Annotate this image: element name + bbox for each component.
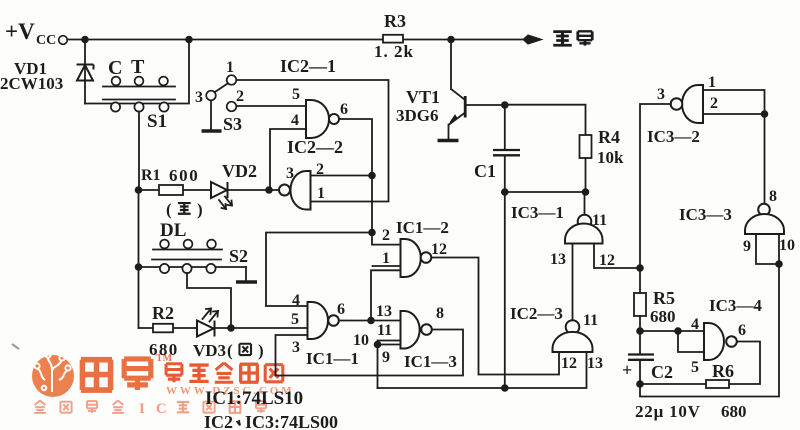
svg-text:IC3:74LS00: IC3:74LS00 bbox=[245, 412, 338, 430]
svg-text:VD3: VD3 bbox=[193, 341, 226, 360]
svg-text:IC1—1: IC1—1 bbox=[306, 349, 359, 368]
wire VT1 base to R4 bbox=[466, 105, 586, 135]
svg-text:3: 3 bbox=[195, 89, 203, 106]
svg-text:10: 10 bbox=[353, 332, 369, 349]
svg-text:11: 11 bbox=[377, 322, 392, 339]
svg-text:IC1—3: IC1—3 bbox=[404, 352, 457, 371]
svg-text:): ) bbox=[197, 200, 203, 219]
ground S2 bbox=[245, 267, 247, 281]
wire IC1-2 out12 to IC2-3 pin12 bbox=[431, 258, 559, 375]
wire S2 common to VD3 line bbox=[187, 273, 231, 328]
ground under S3 bbox=[202, 129, 222, 132]
wire VD3 to IC1-1 pin5 bbox=[216, 327, 308, 329]
wire IC2-2 pin2 bbox=[311, 175, 373, 177]
svg-text:R1: R1 bbox=[141, 167, 161, 184]
wire IC2-1 pin4 feed bbox=[270, 129, 306, 190]
svg-text:IC3—3: IC3—3 bbox=[679, 205, 732, 224]
capacitor C1 bbox=[504, 105, 506, 192]
svg-text:12: 12 bbox=[599, 252, 615, 269]
op-amp gate IC2-1 NAND bbox=[306, 100, 329, 138]
svg-text:VT1: VT1 bbox=[406, 87, 440, 107]
svg-text:R6: R6 bbox=[712, 361, 734, 381]
resistor R4 bbox=[580, 135, 592, 158]
svg-text:C2: C2 bbox=[651, 362, 673, 382]
svg-text:680: 680 bbox=[650, 307, 676, 326]
node junction Vcc-VT1 collector bbox=[447, 36, 455, 44]
node junction R4 bottom bbox=[582, 188, 590, 196]
svg-text:9: 9 bbox=[382, 349, 390, 366]
node junction S2-VD3 bbox=[227, 324, 235, 332]
svg-text:11: 11 bbox=[583, 312, 598, 329]
node junction S2 left bbox=[135, 263, 143, 271]
wire S1 common down to R1/S2/R2 bbox=[138, 112, 141, 329]
node junction base-net bbox=[501, 384, 509, 392]
diode VD1 zener 2CW103 bbox=[84, 40, 86, 104]
svg-text:IC3—2: IC3—2 bbox=[647, 127, 700, 146]
svg-text:R4: R4 bbox=[598, 127, 620, 147]
label (红) bbox=[166, 200, 203, 219]
svg-text:1. 2k: 1. 2k bbox=[374, 42, 414, 61]
label VD3 (绿) bbox=[193, 341, 264, 360]
wire IC3-2 pins1,2 tie to IC3-3 out8 bbox=[703, 90, 765, 204]
svg-text:3: 3 bbox=[292, 339, 300, 356]
svg-text:IC2: IC2 bbox=[204, 412, 233, 430]
svg-text:680: 680 bbox=[721, 402, 747, 421]
wire IC1-1 out6 bbox=[339, 320, 401, 322]
wire C1bottom-R4bottom bbox=[505, 191, 586, 193]
wire IC3-3 pins 9,10 bbox=[756, 234, 779, 264]
node junction out6-IC2-2 pin2 bbox=[368, 172, 376, 180]
node junction pin4/5 tie bbox=[674, 327, 682, 335]
svg-text:IC2—3: IC2—3 bbox=[510, 304, 563, 323]
wire IC3-2 out3 down left rail bbox=[640, 104, 671, 293]
svg-text:12: 12 bbox=[431, 241, 447, 258]
svg-text:T: T bbox=[131, 56, 145, 78]
svg-text:11: 11 bbox=[592, 212, 607, 229]
svg-text:6: 6 bbox=[738, 322, 746, 339]
switch S3 bbox=[206, 91, 216, 101]
svg-text:+: + bbox=[622, 360, 632, 380]
svg-text:IC2—2: IC2—2 bbox=[287, 137, 343, 157]
node junction pin2 bbox=[761, 110, 769, 118]
svg-text:C: C bbox=[108, 57, 122, 79]
wire S3 contact1 to IC2-2 pin1 loop bbox=[237, 80, 389, 202]
wire R5C2 node to IC3-4 pins bbox=[640, 331, 704, 352]
node junction R5-C2 bbox=[636, 327, 644, 335]
svg-text:2CW103: 2CW103 bbox=[0, 74, 63, 93]
node junction VD2-IC2 bbox=[265, 186, 273, 194]
wire net base node bottom rail bbox=[378, 352, 587, 388]
svg-text:IC: IC bbox=[139, 401, 178, 417]
svg-text:6: 6 bbox=[340, 101, 348, 118]
svg-text:10k: 10k bbox=[597, 148, 624, 167]
wire C1 bottom to base-net bbox=[504, 192, 506, 388]
svg-text:680: 680 bbox=[149, 340, 179, 359]
node junction base-C1 bbox=[501, 101, 509, 109]
svg-text:22μ 10V: 22μ 10V bbox=[635, 402, 701, 421]
svg-text:VD2: VD2 bbox=[222, 161, 257, 181]
resistor R3 bbox=[383, 35, 403, 43]
gate IC3-2 NAND mirrored bbox=[682, 85, 703, 123]
svg-text:IC2—1: IC2—1 bbox=[280, 56, 336, 76]
node junction out3-IC3-1 pin12 bbox=[636, 264, 644, 272]
svg-text:12: 12 bbox=[561, 355, 577, 372]
svg-text:CC: CC bbox=[36, 33, 56, 48]
svg-text:4: 4 bbox=[691, 316, 699, 333]
svg-text:IC1:74LS10: IC1:74LS10 bbox=[205, 388, 303, 409]
svg-text:S3: S3 bbox=[223, 114, 242, 134]
diode VD2 LED red bbox=[211, 182, 228, 198]
svg-text:10: 10 bbox=[779, 237, 795, 254]
维库 big orange bbox=[81, 359, 151, 390]
svg-text:8: 8 bbox=[769, 188, 777, 205]
svg-text:R3: R3 bbox=[384, 11, 406, 31]
resistor R6 bbox=[640, 342, 760, 385]
svg-text:1: 1 bbox=[708, 74, 716, 91]
svg-text:IC3—1: IC3—1 bbox=[511, 203, 564, 222]
node +Vcc terminal bbox=[59, 36, 68, 45]
gate IC2-3 NAND up bbox=[566, 320, 580, 334]
svg-text:3: 3 bbox=[286, 165, 294, 182]
switch S1 block bbox=[85, 40, 189, 104]
全球最大IC采购网站 salmon bbox=[34, 401, 124, 413]
node junction R1 left bbox=[135, 186, 143, 194]
gate IC2-2 NAND mirrored bbox=[290, 171, 310, 210]
svg-text:2: 2 bbox=[382, 227, 390, 244]
svg-text:13: 13 bbox=[376, 303, 392, 320]
svg-text:1: 1 bbox=[317, 185, 325, 202]
svg-text:13: 13 bbox=[550, 251, 566, 268]
stray scan mark bbox=[12, 344, 19, 349]
svg-text:+V: +V bbox=[5, 19, 35, 44]
svg-text:5: 5 bbox=[691, 359, 699, 376]
svg-text:1: 1 bbox=[382, 250, 390, 267]
svg-text:IC3—4: IC3—4 bbox=[709, 296, 762, 315]
svg-text:3DG6: 3DG6 bbox=[396, 106, 439, 125]
gate IC1-1 NAND bbox=[308, 302, 329, 339]
node junction out6 net bbox=[367, 317, 375, 325]
node junction pin10 bbox=[775, 260, 783, 268]
label 探针 bbox=[553, 31, 592, 45]
node junction Vcc-VD1 bbox=[81, 36, 89, 44]
svg-text:600: 600 bbox=[169, 166, 199, 185]
wire IC2-2 out3 to VD2 node bbox=[229, 189, 279, 191]
gate IC1-3 NAND bbox=[401, 311, 420, 349]
svg-text:13: 13 bbox=[587, 355, 603, 372]
wire IC1-2 pin1 stub bbox=[373, 265, 401, 267]
svg-text:2: 2 bbox=[316, 161, 324, 178]
svg-text:2: 2 bbox=[236, 88, 244, 105]
svg-text:4: 4 bbox=[292, 292, 300, 309]
svg-text:R5: R5 bbox=[653, 288, 675, 308]
svg-text:9: 9 bbox=[743, 238, 751, 255]
svg-text:1: 1 bbox=[226, 59, 234, 76]
resistor R5 bbox=[634, 293, 646, 316]
svg-text:2: 2 bbox=[710, 95, 718, 112]
wire top supply rail bbox=[68, 39, 533, 41]
wire to IC1-1 pin4 bbox=[266, 233, 372, 307]
svg-text:8: 8 bbox=[436, 305, 444, 322]
ground VT1 emitter bbox=[438, 139, 459, 142]
node probe arrow 探针 bbox=[523, 35, 542, 44]
watermark logo circle bbox=[32, 355, 74, 397]
svg-text:(: ( bbox=[166, 200, 172, 219]
svg-text:S1: S1 bbox=[147, 111, 167, 132]
resistor R1 bbox=[139, 189, 212, 191]
gate IC1-2 NAND bbox=[401, 239, 421, 277]
wire right rail down to bottom bbox=[640, 264, 779, 397]
svg-text:R2: R2 bbox=[152, 303, 174, 323]
transistor VT1 3DG6 bbox=[451, 40, 465, 100]
wire S3 contact2 to IC2-1 pin5 bbox=[237, 105, 307, 107]
svg-text:4: 4 bbox=[291, 112, 299, 129]
gate IC3-3 NAND up bbox=[758, 204, 770, 216]
capacitor C2 electrolytic bbox=[639, 331, 641, 384]
node junction out6-IC1-2 pin2 bbox=[368, 229, 376, 237]
svg-text:S2: S2 bbox=[229, 246, 248, 266]
diode VD3 LED green bbox=[197, 321, 215, 337]
wire IC1-2 pin13 feed bbox=[371, 270, 401, 320]
svg-text:C1: C1 bbox=[474, 161, 496, 181]
node junction C2 bottom bbox=[636, 380, 644, 388]
wire IC1-3 pins 9,10 tie bbox=[378, 341, 401, 389]
switch S2 block DL bbox=[152, 250, 222, 260]
svg-text:5: 5 bbox=[291, 311, 299, 328]
wire IC3-1 pin12 bbox=[594, 244, 640, 269]
node junction Vcc-S1 bbox=[185, 36, 193, 44]
node junction C1 bottom bbox=[501, 188, 509, 196]
svg-text:5: 5 bbox=[292, 86, 300, 103]
svg-text:(: ( bbox=[227, 341, 233, 360]
resistor R2 bbox=[139, 327, 198, 329]
svg-text:6: 6 bbox=[337, 301, 345, 318]
svg-text:3: 3 bbox=[657, 86, 665, 103]
svg-text:DL: DL bbox=[160, 220, 186, 241]
gate IC3-4 NAND bbox=[704, 323, 724, 360]
svg-text:): ) bbox=[258, 341, 264, 360]
node junction pins9-10 bbox=[374, 341, 382, 349]
svg-text:IC1—2: IC1—2 bbox=[396, 218, 449, 237]
wire IC2-1 out6 vertical chain bbox=[339, 119, 401, 245]
wire IC3-1 pin13 / IC2-3 out11 bbox=[572, 244, 574, 321]
wire IC1-1 pin3 feed from IC1-3 out8 bbox=[276, 330, 464, 376]
gate IC3-1 NAND up bbox=[584, 192, 586, 215]
电子市场网 red-orange bbox=[166, 363, 283, 382]
